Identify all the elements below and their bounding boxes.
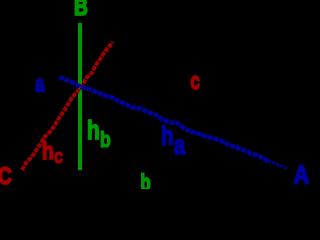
svg-text:b: b — [100, 128, 111, 152]
svg-text:a: a — [35, 71, 45, 98]
svg-text:c: c — [191, 68, 200, 95]
svg-text:A: A — [294, 161, 310, 189]
svg-text:C: C — [0, 162, 12, 189]
svg-text:h: h — [87, 116, 100, 145]
svg-text:h: h — [42, 137, 54, 165]
svg-text:a: a — [174, 130, 186, 161]
svg-text:B: B — [74, 0, 88, 21]
svg-text:h: h — [161, 121, 174, 150]
svg-text:b: b — [141, 171, 151, 189]
svg-text:c: c — [54, 145, 63, 167]
